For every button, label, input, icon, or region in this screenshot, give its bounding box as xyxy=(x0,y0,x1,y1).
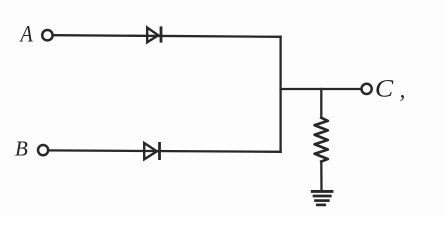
terminal node C xyxy=(362,84,372,94)
terminal node B xyxy=(38,145,48,155)
wire: junction to output terminal xyxy=(281,88,361,90)
wire: resistor top lead xyxy=(320,89,322,118)
diode D1 cathode bar xyxy=(160,28,163,41)
diode D2 (input B) triangle xyxy=(144,143,157,159)
ground symbol bar 4 xyxy=(317,204,324,207)
svg-text:B: B xyxy=(15,137,28,161)
resistor R1 zigzag xyxy=(315,118,328,162)
diode D1 (input A) triangle xyxy=(147,28,158,43)
svg-text:,: , xyxy=(400,78,406,103)
ground symbol bar 2 xyxy=(314,195,330,198)
terminal node A xyxy=(42,30,52,40)
svg-text:A: A xyxy=(19,21,33,47)
wire: B terminal to bottom-right corner xyxy=(49,150,281,151)
wire: A terminal to top-right corner xyxy=(54,35,281,37)
wire: right vertical joining both branches xyxy=(279,37,281,152)
ground symbol bar 3 xyxy=(316,199,329,202)
ground symbol bar 1 xyxy=(312,190,332,193)
diode D2 cathode bar xyxy=(158,143,161,158)
svg-text:C: C xyxy=(375,75,394,102)
wire: resistor bottom lead xyxy=(320,162,323,192)
